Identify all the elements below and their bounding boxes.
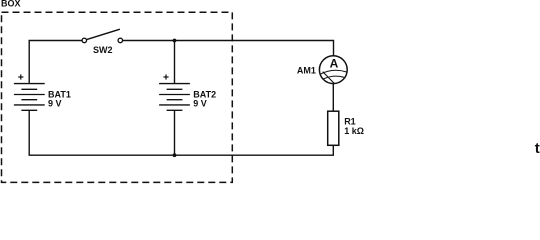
svg-text:SW2: SW2 xyxy=(93,45,113,55)
svg-text:R1: R1 xyxy=(344,116,356,126)
svg-text:t: t xyxy=(535,140,540,157)
svg-text:9 V: 9 V xyxy=(48,99,62,109)
svg-text:9 V: 9 V xyxy=(193,99,207,109)
svg-text:AM1: AM1 xyxy=(297,66,316,76)
svg-text:1 kΩ: 1 kΩ xyxy=(344,126,364,136)
svg-text:A: A xyxy=(330,57,339,71)
svg-text:BOX: BOX xyxy=(1,0,21,8)
